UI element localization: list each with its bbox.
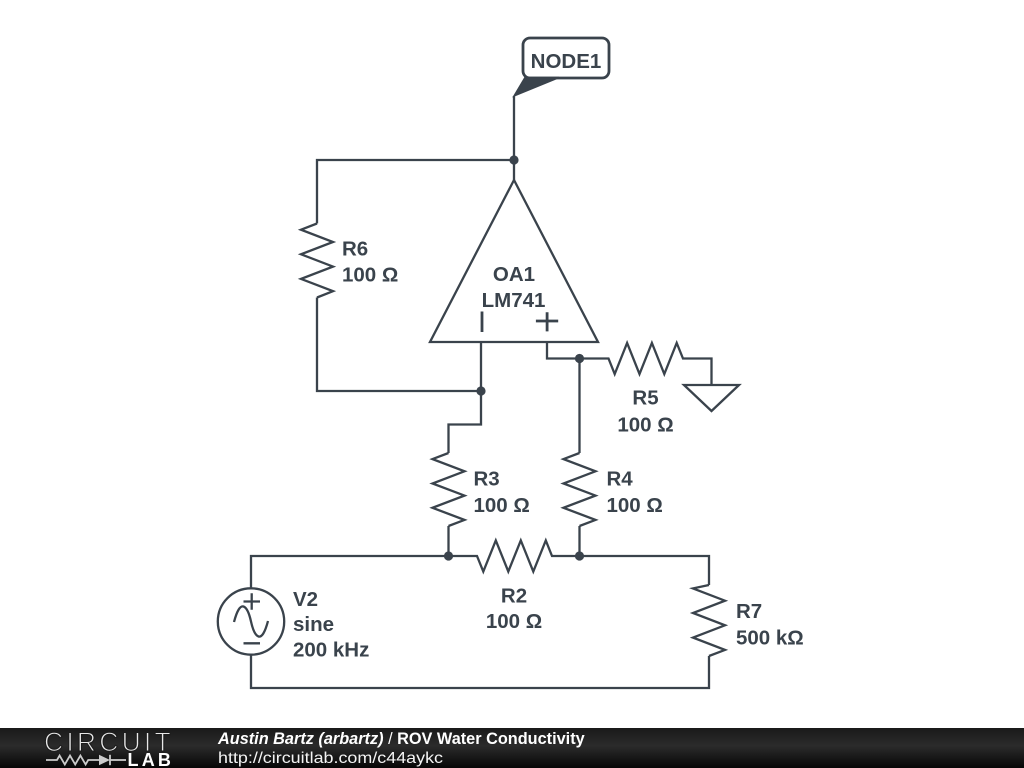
svg-text:OA1: OA1 [493, 263, 535, 286]
wire bottom left loop [251, 556, 449, 589]
resistor R3 [433, 453, 465, 526]
junction dot plus node [575, 354, 584, 363]
svg-text:R5: R5 [632, 387, 658, 410]
svg-text:100 Ω: 100 Ω [486, 610, 542, 633]
wire top feedback horizontal [317, 160, 514, 224]
svg-text:R7: R7 [736, 600, 762, 623]
junction dot inverting node [476, 386, 485, 395]
wire V2 bottom loop [251, 655, 709, 688]
resistor R6 [301, 224, 333, 298]
wire non-inverting input pin [547, 342, 580, 359]
junction dot R4/R2/R7 [575, 551, 584, 560]
wire plus node down to R4 [578, 359, 580, 454]
op-amp minus input bar [481, 312, 484, 333]
svg-text:100 Ω: 100 Ω [617, 414, 673, 437]
resistor R7 [693, 585, 725, 656]
svg-text:100 Ω: 100 Ω [474, 494, 530, 517]
svg-text:LAB: LAB [128, 750, 175, 768]
svg-text:100 Ω: 100 Ω [342, 264, 398, 287]
resistor R4 [564, 453, 596, 526]
svg-text:R6: R6 [342, 238, 368, 261]
resistor R2 [449, 541, 580, 572]
resistor R5 [580, 343, 712, 385]
logo diode triangle [99, 755, 110, 765]
svg-text:NODE1: NODE1 [531, 50, 602, 73]
svg-text:Austin Bartz (arbartz) / ROV W: Austin Bartz (arbartz) / ROV Water Condu… [217, 730, 585, 748]
svg-text:R2: R2 [501, 585, 527, 608]
svg-text:V2: V2 [293, 588, 318, 611]
svg-text:100 Ω: 100 Ω [607, 494, 663, 517]
V2 minus sign [244, 642, 261, 644]
svg-text:LM741: LM741 [482, 289, 546, 312]
op-amp U1 triangle [430, 180, 598, 342]
NODE1 flag tail [514, 78, 559, 97]
wire R6 bottom to inverting node [317, 298, 481, 392]
wire R4 bottom [578, 526, 580, 556]
svg-text:200 kHz: 200 kHz [293, 639, 369, 662]
wire R7 top [580, 556, 710, 585]
wire jog to R3 [449, 391, 482, 453]
svg-text:R4: R4 [607, 468, 634, 491]
junction dot node1/feedback [509, 155, 518, 164]
wire inverting input pin [480, 342, 482, 391]
V2 sine wave [234, 606, 268, 636]
svg-text:500 kΩ: 500 kΩ [736, 627, 804, 650]
voltage source V2 [218, 588, 284, 654]
svg-text:http://circuitlab.com/c44aykc: http://circuitlab.com/c44aykc [218, 750, 443, 767]
logo resistor-diode line [46, 755, 126, 765]
footer bar [0, 728, 1024, 768]
svg-text:R3: R3 [474, 468, 500, 491]
V2 plus sign [244, 593, 261, 609]
op-amp plus input sign [536, 312, 558, 331]
NODE1 flag box [523, 38, 609, 78]
wire R3 bottom [447, 526, 449, 556]
svg-text:sine: sine [293, 613, 334, 636]
ground symbol [684, 385, 739, 411]
wire NODE1 stem to op-amp apex [513, 96, 515, 180]
junction dot R3/R2 [444, 551, 453, 560]
